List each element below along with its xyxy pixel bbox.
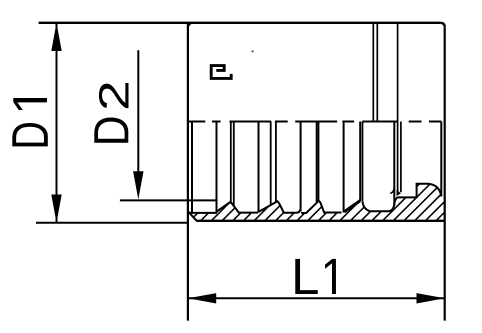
left edge of body + L1 left extension [187, 23, 189, 321]
D2 extension line [120, 199, 216, 201]
D1 dimension [56, 23, 58, 223]
D1 label [12, 123, 48, 146]
groove E right wall [393, 122, 395, 206]
mid lines pitch 2 [270, 122, 272, 206]
channel line right of groove E [400, 122, 402, 193]
bottom-left chamfer white cut [187, 210, 198, 222]
small dot [252, 50, 254, 52]
mid lines pitch 1 [230, 122, 232, 203]
serration wall at left edge [191, 122, 193, 213]
L1 label [295, 259, 317, 294]
D2 label [94, 117, 128, 142]
D1 bottom extension line [36, 222, 188, 224]
bottom edge of body [196, 220, 444, 222]
hatch (section lines) [176, 178, 479, 224]
hidden bore dashes at right [409, 121, 422, 123]
D2 dimension [137, 50, 139, 173]
mid lines pitch 3 [316, 122, 318, 203]
inner right wall [440, 122, 442, 197]
chamfer line [188, 211, 197, 221]
right edge of body + L1 right extension [444, 27, 446, 320]
serration profile line (floors, ramps, fillets, step) [189, 184, 441, 213]
serration wall 3 [300, 122, 302, 212]
serration wall 2 [258, 122, 260, 213]
skive groove pair (top) [372, 23, 374, 122]
top right rounded corner [440, 23, 444, 27]
top-left inner corner fillet [188, 23, 193, 28]
body top edge + D1 top extension line [39, 22, 441, 24]
serration wall 1 [216, 122, 218, 213]
small foot at channel bottom [397, 190, 401, 197]
bore line (crest) segments y=121.5 [187, 121, 441, 123]
mid lines pitch 4 [359, 122, 361, 202]
logo mark [211, 66, 231, 79]
long line from top edge down to step [397, 23, 399, 192]
L1 dimension [188, 297, 445, 299]
second ramp line of last pitch [344, 200, 360, 211]
serration wall 4 [343, 122, 345, 213]
small hook inside E near right wall [390, 188, 394, 194]
